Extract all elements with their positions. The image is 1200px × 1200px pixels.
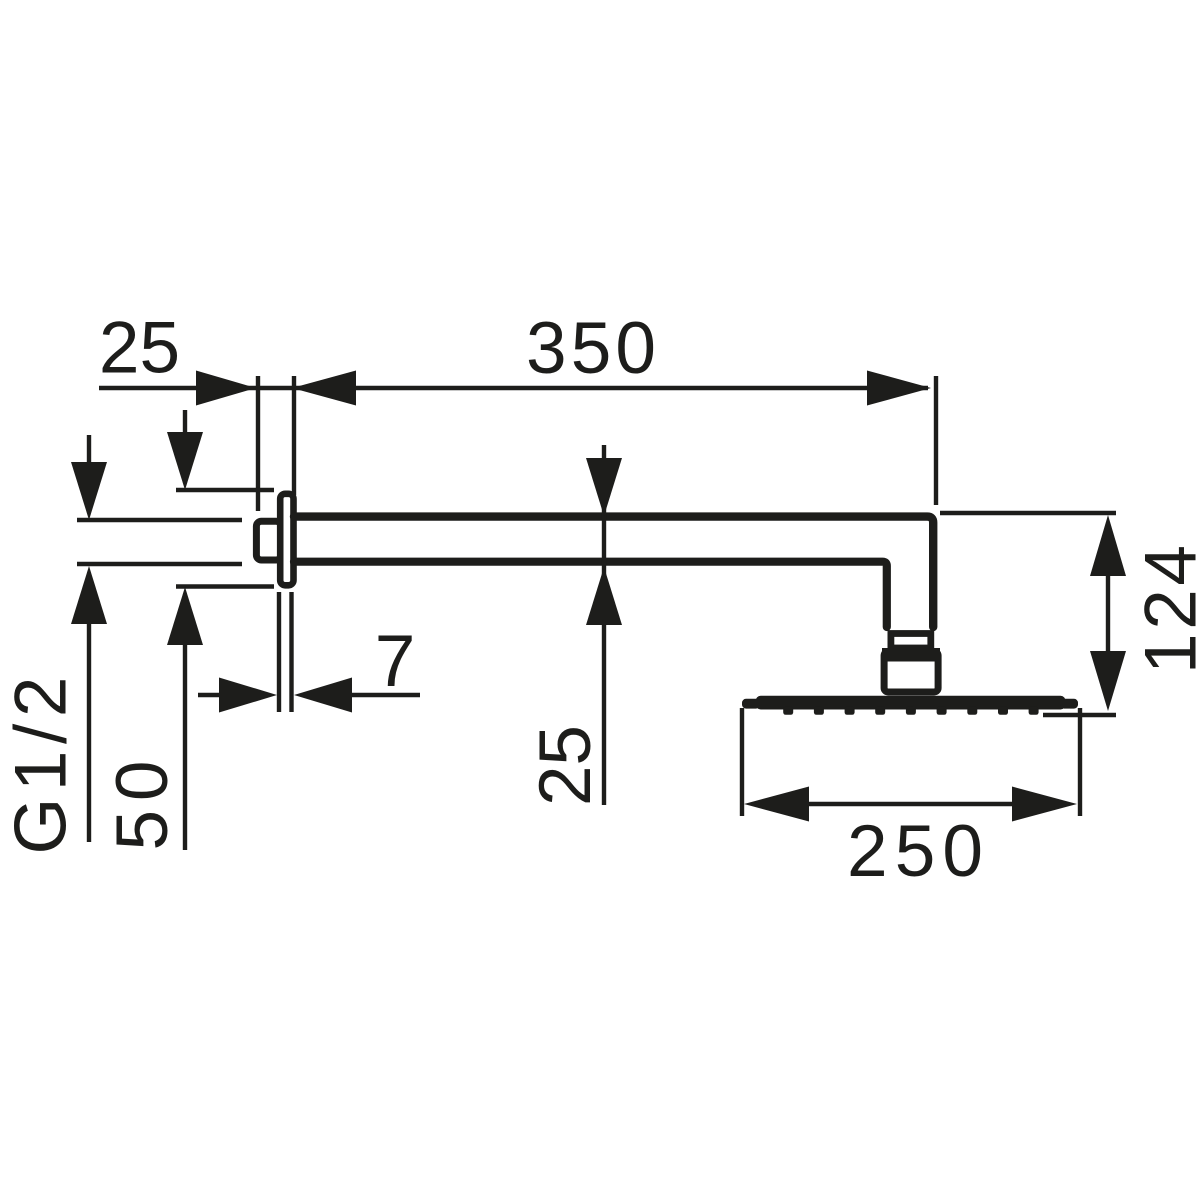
arrowhead 50 up xyxy=(167,587,203,645)
arrowhead 124 down xyxy=(1090,651,1126,711)
dim 7 extension line right xyxy=(289,592,293,712)
ref line y490 xyxy=(176,488,274,492)
dim G1/2 vertical line upper xyxy=(87,435,91,466)
dim 7 tail right xyxy=(350,693,420,697)
dim 250 line xyxy=(760,802,1062,806)
dim 25 mid vertical line xyxy=(602,445,606,805)
arrowhead G1/2 up xyxy=(71,566,107,624)
dim 124 ref line top xyxy=(940,511,1116,515)
arrowhead 124 up xyxy=(1090,515,1126,576)
arrowhead 7 right xyxy=(294,678,352,713)
arrowhead 50 down xyxy=(167,432,203,490)
svg-text:124: 124 xyxy=(1131,545,1200,674)
svg-text:25: 25 xyxy=(525,725,606,806)
ref line y520 xyxy=(77,518,242,522)
flange plate body xyxy=(280,494,293,586)
nut top solid band xyxy=(882,648,940,662)
svg-text:250: 250 xyxy=(847,811,983,892)
svg-text:25: 25 xyxy=(99,308,180,389)
dim 7 tail left xyxy=(198,693,222,697)
dim 124 shaft xyxy=(1106,570,1110,655)
shower head body xyxy=(756,696,1066,710)
ref line y564 xyxy=(77,562,242,566)
arrowhead 25 mid up xyxy=(586,567,622,625)
arrowhead 250 right xyxy=(1012,787,1077,822)
connector nut xyxy=(884,652,938,693)
arrowhead 25 mid down xyxy=(586,458,622,516)
shower head right rim xyxy=(1060,699,1078,709)
wall flange plate xyxy=(256,494,293,586)
connector neck xyxy=(891,634,931,649)
arrowhead 25 top (right) xyxy=(196,371,256,406)
dim 250 extension line right xyxy=(1078,708,1082,816)
dimension graphics xyxy=(77,376,1116,850)
shower arm outer edge (top + right) xyxy=(294,517,933,627)
dim 50 vertical line lower xyxy=(183,641,187,850)
shower head left rim xyxy=(742,699,760,709)
svg-text:7: 7 xyxy=(375,621,416,702)
shower arm inner edge (bottom + inner wall) xyxy=(294,562,887,627)
dim 7 extension line left xyxy=(277,592,281,712)
arrowhead 350 left xyxy=(292,371,356,406)
arrowhead 7 left xyxy=(219,678,277,713)
dim 250 extension line left xyxy=(740,708,744,816)
svg-text:350: 350 xyxy=(526,308,656,389)
dim 25 top and 350: line xyxy=(99,386,928,390)
nozzle row xyxy=(783,707,1038,715)
extension line x258 xyxy=(256,376,260,511)
dim 50 vertical line upper xyxy=(183,410,187,436)
dim G1/2 vertical line lower xyxy=(87,620,91,842)
thread stub G1/2 xyxy=(256,521,281,560)
arrowhead G1/2 down xyxy=(71,462,107,520)
ref line y586 xyxy=(176,584,274,588)
svg-text:G1/2: G1/2 xyxy=(1,677,82,855)
extension line x294 xyxy=(292,376,296,495)
extension line x936 xyxy=(934,376,938,505)
arrowhead 250 left xyxy=(744,787,809,822)
arrowhead 350 right xyxy=(867,371,931,406)
dim 124 ref line bottom xyxy=(1043,713,1116,717)
